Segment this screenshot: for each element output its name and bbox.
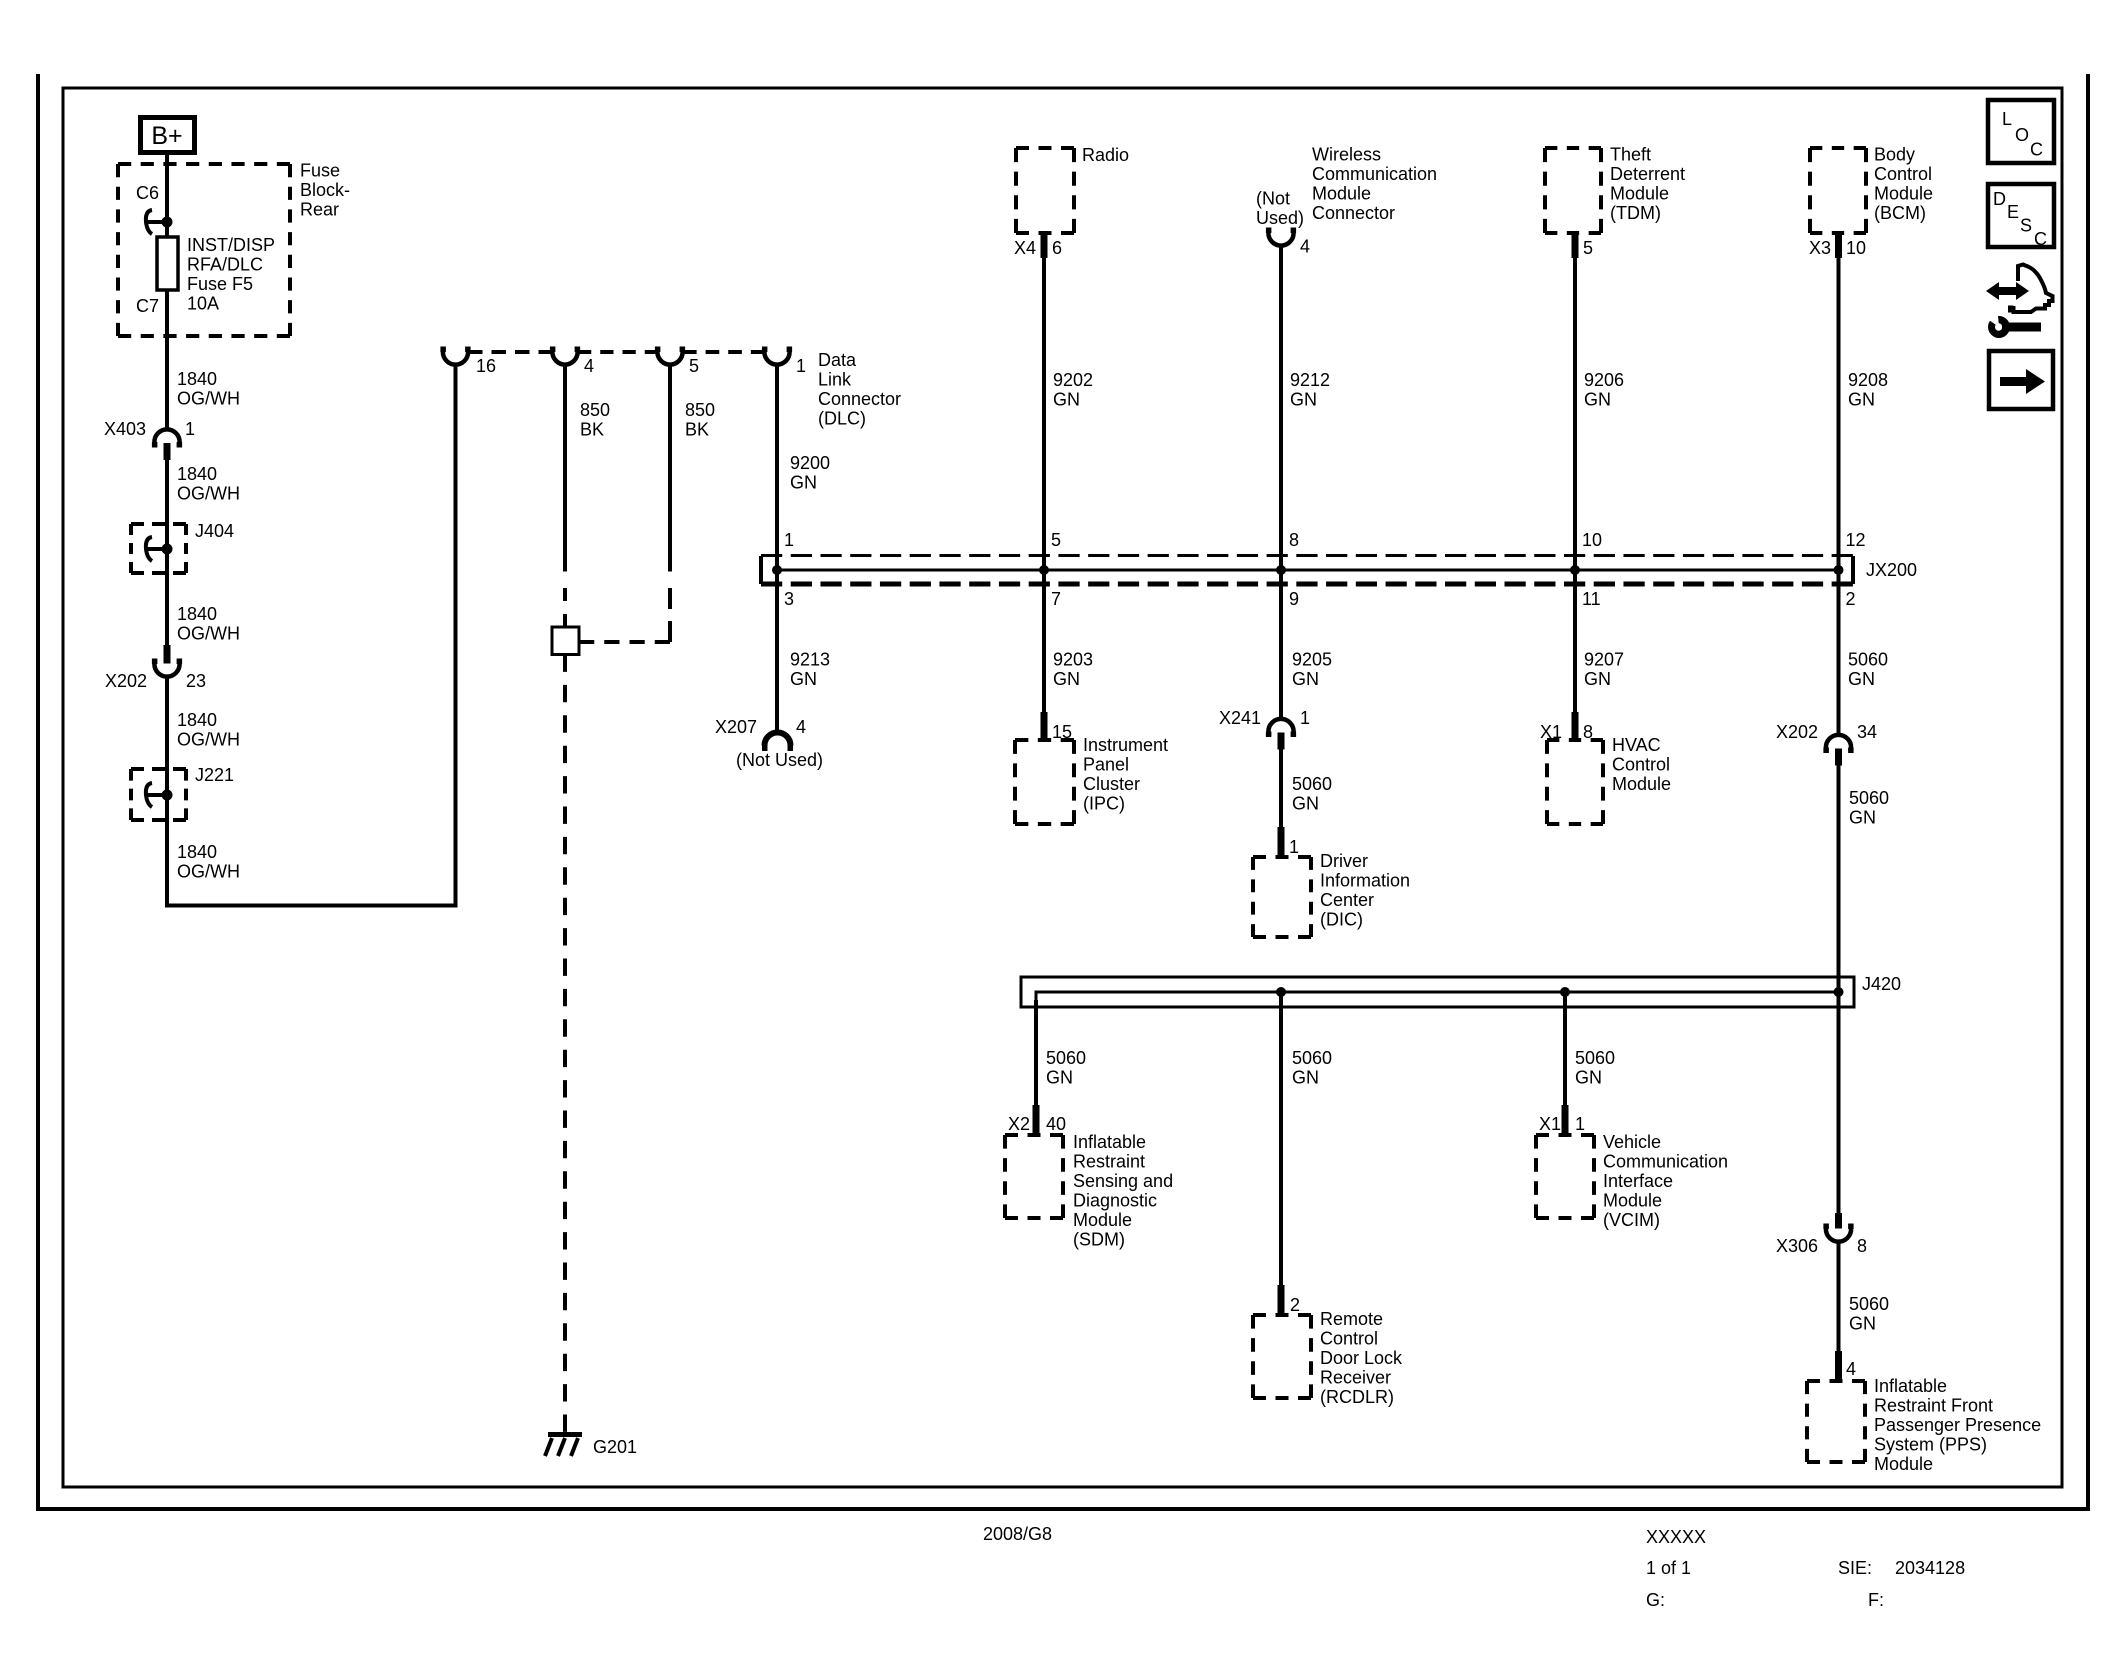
svg-text:1: 1 bbox=[784, 530, 794, 550]
svg-text:Instrument: Instrument bbox=[1083, 735, 1168, 755]
svg-text:X4: X4 bbox=[1014, 238, 1036, 258]
wire 9212 GN bbox=[1279, 245, 1283, 719]
svg-text:9207: 9207 bbox=[1584, 650, 1624, 670]
svg-text:Body: Body bbox=[1874, 145, 1915, 165]
svg-text:5060: 5060 bbox=[1849, 1294, 1889, 1314]
svg-text:850: 850 bbox=[580, 400, 610, 420]
svg-text:Module: Module bbox=[1610, 184, 1669, 204]
diagram inner frame bbox=[63, 88, 2062, 1487]
wire 5060 GN to J420 bbox=[1837, 765, 1841, 1214]
DLC dashed connector line bbox=[468, 350, 553, 354]
svg-text:2: 2 bbox=[1846, 589, 1856, 609]
junction on JX200 bbox=[1039, 565, 1049, 575]
svg-text:8: 8 bbox=[1857, 1236, 1867, 1256]
wire 9200 GN bbox=[775, 364, 779, 733]
module SDM dashed box bbox=[1005, 1133, 1063, 1137]
svg-text:JX200: JX200 bbox=[1866, 560, 1917, 580]
page outer border bottom bbox=[36, 1507, 2090, 1511]
wire 9206 GN bbox=[1573, 256, 1577, 714]
svg-text:OG/WH: OG/WH bbox=[177, 862, 240, 882]
svg-text:X306: X306 bbox=[1776, 1236, 1818, 1256]
wire bottom run to DLC pin 16 bbox=[167, 364, 456, 906]
svg-text:Restraint: Restraint bbox=[1073, 1152, 1145, 1172]
svg-text:2008/G8: 2008/G8 bbox=[983, 1524, 1052, 1544]
svg-text:5060: 5060 bbox=[1046, 1048, 1086, 1068]
icon box DESC bbox=[1988, 184, 2054, 249]
svg-text:1840: 1840 bbox=[177, 464, 217, 484]
svg-text:9205: 9205 bbox=[1292, 650, 1332, 670]
splice pack J420 bus line bbox=[1036, 992, 1839, 1105]
svg-text:(BCM): (BCM) bbox=[1874, 203, 1926, 223]
icon box LOC bbox=[1988, 100, 2054, 163]
svg-text:Block-: Block- bbox=[300, 180, 350, 200]
splice clip J221 bbox=[146, 783, 173, 807]
svg-text:G201: G201 bbox=[593, 1437, 637, 1457]
svg-text:L: L bbox=[2002, 109, 2012, 129]
pin stub SDM bbox=[1033, 1105, 1040, 1137]
svg-text:9212: 9212 bbox=[1290, 370, 1330, 390]
junction on JX200 bbox=[1570, 565, 1580, 575]
svg-text:1: 1 bbox=[796, 356, 806, 376]
svg-text:10: 10 bbox=[1582, 530, 1602, 550]
svg-text:Cluster: Cluster bbox=[1083, 774, 1140, 794]
svg-text:34: 34 bbox=[1857, 722, 1877, 742]
svg-text:GN: GN bbox=[1053, 669, 1080, 689]
svg-text:10A: 10A bbox=[187, 294, 219, 314]
svg-text:(TDM): (TDM) bbox=[1610, 203, 1661, 223]
svg-text:Module: Module bbox=[1073, 1210, 1132, 1230]
svg-text:Control: Control bbox=[1320, 1329, 1378, 1349]
svg-text:1: 1 bbox=[1289, 837, 1299, 857]
svg-text:S: S bbox=[2020, 216, 2032, 236]
connector X202 pin 34 bbox=[1823, 735, 1853, 766]
svg-text:(SDM): (SDM) bbox=[1073, 1230, 1125, 1250]
svg-text:(DLC): (DLC) bbox=[818, 409, 866, 429]
svg-text:9: 9 bbox=[1289, 589, 1299, 609]
svg-text:6: 6 bbox=[1052, 238, 1062, 258]
svg-text:Radio: Radio bbox=[1082, 145, 1129, 165]
svg-text:Fuse: Fuse bbox=[300, 161, 340, 181]
svg-text:11: 11 bbox=[1582, 589, 1601, 609]
svg-text:C7: C7 bbox=[136, 296, 159, 316]
svg-text:Center: Center bbox=[1320, 890, 1374, 910]
svg-text:5060: 5060 bbox=[1575, 1048, 1615, 1068]
svg-text:OG/WH: OG/WH bbox=[177, 484, 240, 504]
svg-text:O: O bbox=[2015, 125, 2029, 145]
svg-text:1840: 1840 bbox=[177, 604, 217, 624]
svg-text:Connector: Connector bbox=[818, 389, 901, 409]
svg-text:(RCDLR): (RCDLR) bbox=[1320, 1387, 1394, 1407]
page outer border right bbox=[2086, 74, 2090, 1511]
svg-text:GN: GN bbox=[1848, 669, 1875, 689]
svg-text:E: E bbox=[2007, 202, 2019, 222]
svg-text:Control: Control bbox=[1874, 164, 1932, 184]
module HVAC Control Module dashed box bbox=[1547, 738, 1603, 742]
icon double arrow bbox=[1986, 282, 2029, 300]
pin stub VCIM bbox=[1562, 1105, 1569, 1137]
svg-text:Information: Information bbox=[1320, 871, 1410, 891]
svg-text:OG/WH: OG/WH bbox=[177, 389, 240, 409]
connector X241 pin 1 bbox=[1266, 719, 1296, 750]
connector cavity Wireless pin 4 bbox=[1266, 228, 1296, 246]
icon vehicle outline bbox=[2008, 265, 2053, 313]
svg-text:2: 2 bbox=[1290, 1295, 1300, 1315]
svg-text:Control: Control bbox=[1612, 755, 1670, 775]
pin stub PPS bbox=[1835, 1351, 1842, 1383]
svg-text:X403: X403 bbox=[104, 419, 146, 439]
svg-text:40: 40 bbox=[1046, 1114, 1066, 1134]
svg-text:5060: 5060 bbox=[1849, 788, 1889, 808]
svg-text:Diagnostic: Diagnostic bbox=[1073, 1191, 1157, 1211]
svg-text:GN: GN bbox=[1290, 390, 1317, 410]
pin stub IPC bbox=[1041, 712, 1048, 742]
svg-text:Remote: Remote bbox=[1320, 1309, 1383, 1329]
svg-text:2034128: 2034128 bbox=[1895, 1558, 1965, 1578]
junction on J420 bbox=[1560, 987, 1570, 997]
svg-text:INST/DISP: INST/DISP bbox=[187, 235, 275, 255]
connector X207 pin 4 (not used) bbox=[762, 733, 793, 751]
svg-text:GN: GN bbox=[1849, 1314, 1876, 1334]
svg-text:Theft: Theft bbox=[1610, 145, 1651, 165]
svg-text:(Not: (Not bbox=[1256, 189, 1290, 209]
svg-text:(Not Used): (Not Used) bbox=[736, 750, 823, 770]
connector X306 pin 8 bbox=[1823, 1213, 1853, 1242]
svg-text:GN: GN bbox=[1584, 669, 1611, 689]
splice pack JX200 bus line bbox=[777, 569, 1839, 572]
svg-text:Interface: Interface bbox=[1603, 1171, 1673, 1191]
page outer border left bbox=[36, 74, 40, 1511]
svg-text:16: 16 bbox=[476, 356, 496, 376]
junction on JX200 bbox=[772, 565, 782, 575]
svg-text:Sensing and: Sensing and bbox=[1073, 1171, 1173, 1191]
svg-text:Panel: Panel bbox=[1083, 755, 1129, 775]
icon box next arrow bbox=[1989, 351, 2053, 409]
svg-text:1 of 1: 1 of 1 bbox=[1646, 1558, 1691, 1578]
wire 5060 GN to RCDLR bbox=[1279, 994, 1283, 1317]
svg-text:8: 8 bbox=[1289, 530, 1299, 550]
svg-text:9203: 9203 bbox=[1053, 650, 1093, 670]
module PPS dashed box bbox=[1807, 1379, 1865, 1383]
svg-text:Communication: Communication bbox=[1603, 1152, 1728, 1172]
svg-text:Receiver: Receiver bbox=[1320, 1368, 1391, 1388]
module Radio dashed box bbox=[1016, 146, 1074, 150]
svg-text:4: 4 bbox=[584, 356, 594, 376]
svg-text:Module: Module bbox=[1874, 184, 1933, 204]
DLC connector cavity 4 bbox=[550, 347, 580, 365]
svg-text:GN: GN bbox=[1046, 1068, 1073, 1088]
svg-text:GN: GN bbox=[1575, 1068, 1602, 1088]
svg-text:(VCIM): (VCIM) bbox=[1603, 1210, 1660, 1230]
svg-text:J420: J420 bbox=[1862, 974, 1901, 994]
connector X202 pin 23 bbox=[152, 645, 182, 677]
svg-text:GN: GN bbox=[790, 669, 817, 689]
hidden wire dashed to splice node bbox=[563, 588, 567, 627]
svg-text:5: 5 bbox=[1051, 530, 1061, 550]
svg-text:B+: B+ bbox=[151, 122, 182, 150]
svg-text:X3: X3 bbox=[1809, 238, 1831, 258]
svg-text:X1: X1 bbox=[1539, 1114, 1561, 1134]
svg-text:Data: Data bbox=[818, 350, 857, 370]
svg-text:7: 7 bbox=[1051, 589, 1061, 609]
svg-text:OG/WH: OG/WH bbox=[177, 730, 240, 750]
DLC connector cavity 16 bbox=[440, 347, 470, 365]
svg-text:1: 1 bbox=[1575, 1114, 1585, 1134]
splice pack JX200 dashed box bbox=[761, 556, 1853, 585]
pin stub HVAC bbox=[1572, 712, 1579, 742]
svg-text:OG/WH: OG/WH bbox=[177, 624, 240, 644]
wire 5060 GN to DIC bbox=[1279, 749, 1283, 859]
svg-text:5060: 5060 bbox=[1292, 1048, 1332, 1068]
footer label SIE number bbox=[1838, 1558, 1965, 1578]
svg-text:Inflatable: Inflatable bbox=[1073, 1132, 1146, 1152]
svg-text:Deterrent: Deterrent bbox=[1610, 164, 1685, 184]
svg-text:Restraint Front: Restraint Front bbox=[1874, 1396, 1993, 1416]
wire X202 to J221 bbox=[165, 676, 169, 908]
pin stub BCM bbox=[1835, 231, 1842, 258]
svg-text:GN: GN bbox=[1292, 1068, 1319, 1088]
junction on J420 bbox=[1276, 987, 1286, 997]
svg-text:GN: GN bbox=[1292, 669, 1319, 689]
junction on J420 bbox=[1834, 987, 1844, 997]
module VCIM dashed box bbox=[1536, 1133, 1594, 1137]
svg-text:Connector: Connector bbox=[1312, 203, 1395, 223]
svg-text:C: C bbox=[2030, 140, 2043, 160]
wire 9208 GN bbox=[1837, 256, 1841, 735]
svg-text:Wireless: Wireless bbox=[1312, 145, 1381, 165]
splice node square bbox=[552, 627, 579, 655]
splice clip J404 bbox=[146, 537, 173, 561]
wire 5060 GN to SDM bbox=[1034, 1000, 1038, 1137]
svg-text:1840: 1840 bbox=[177, 369, 217, 389]
DLC connector cavity 5 bbox=[655, 347, 685, 365]
svg-text:4: 4 bbox=[796, 717, 806, 737]
pin stub TDM bbox=[1572, 231, 1579, 258]
fuse F5 body bbox=[157, 237, 178, 290]
pin stub DIC bbox=[1278, 827, 1285, 859]
svg-text:9213: 9213 bbox=[790, 650, 830, 670]
connector X403 pin 1 bbox=[152, 429, 182, 460]
svg-text:Communication: Communication bbox=[1312, 164, 1437, 184]
svg-text:Passenger Presence: Passenger Presence bbox=[1874, 1415, 2041, 1435]
svg-text:Driver: Driver bbox=[1320, 851, 1368, 871]
svg-text:GN: GN bbox=[1292, 794, 1319, 814]
DLC connector cavity 1 bbox=[762, 347, 792, 365]
svg-text:XXXXX: XXXXX bbox=[1646, 1527, 1706, 1547]
icon wrench bbox=[1988, 316, 2041, 338]
svg-text:3: 3 bbox=[784, 589, 794, 609]
svg-text:GN: GN bbox=[1584, 390, 1611, 410]
svg-text:C: C bbox=[2034, 229, 2047, 249]
wire 9202 GN bbox=[1042, 256, 1046, 714]
svg-text:Module: Module bbox=[1312, 184, 1371, 204]
junction on JX200 bbox=[1834, 565, 1844, 575]
module IPC dashed box bbox=[1015, 738, 1074, 742]
wire 850 BK from DLC pin 4 bbox=[563, 364, 567, 572]
wire 5060 GN to VCIM bbox=[1563, 994, 1567, 1137]
svg-text:(IPC): (IPC) bbox=[1083, 794, 1125, 814]
svg-text:5060: 5060 bbox=[1292, 774, 1332, 794]
junction on JX200 bbox=[1276, 565, 1286, 575]
svg-text:5060: 5060 bbox=[1848, 650, 1888, 670]
module DIC dashed box bbox=[1253, 855, 1311, 859]
power symbol B+ bbox=[141, 118, 195, 153]
svg-text:4: 4 bbox=[1300, 237, 1310, 257]
svg-text:Module: Module bbox=[1874, 1454, 1933, 1474]
hidden wire dashed to ground bbox=[563, 655, 567, 1433]
module TDM dashed box bbox=[1545, 146, 1601, 150]
wire 5060 GN to PPS bbox=[1837, 1241, 1841, 1383]
svg-text:X202: X202 bbox=[1776, 722, 1818, 742]
svg-text:System (PPS): System (PPS) bbox=[1874, 1435, 1987, 1455]
svg-text:RFA/DLC: RFA/DLC bbox=[187, 255, 263, 275]
svg-text:GN: GN bbox=[1053, 390, 1080, 410]
svg-text:9208: 9208 bbox=[1848, 370, 1888, 390]
svg-text:5: 5 bbox=[1583, 238, 1593, 258]
svg-text:1: 1 bbox=[1300, 708, 1310, 728]
svg-text:Rear: Rear bbox=[300, 200, 339, 220]
svg-text:BK: BK bbox=[685, 420, 709, 440]
fuse block dashed box Fuse Block-Rear bbox=[118, 162, 290, 166]
svg-text:1840: 1840 bbox=[177, 710, 217, 730]
splice pack J420 box bbox=[1021, 977, 1854, 1007]
svg-text:BK: BK bbox=[580, 420, 604, 440]
hidden wire dashed from pin 5 bbox=[668, 588, 672, 642]
svg-text:5: 5 bbox=[689, 356, 699, 376]
svg-text:12: 12 bbox=[1846, 530, 1866, 550]
svg-text:Inflatable: Inflatable bbox=[1874, 1376, 1947, 1396]
wire B+ to fuse block bbox=[165, 155, 169, 430]
pin stub RCDLR bbox=[1278, 1285, 1285, 1317]
svg-text:SIE:: SIE: bbox=[1838, 1558, 1872, 1578]
splice J221 dashed box bbox=[131, 767, 186, 771]
svg-text:J404: J404 bbox=[195, 521, 234, 541]
splice J404 dashed box bbox=[131, 522, 186, 526]
svg-text:4: 4 bbox=[1846, 1359, 1856, 1379]
pin stub Radio bbox=[1041, 231, 1048, 258]
svg-text:C6: C6 bbox=[136, 183, 159, 203]
svg-text:Used): Used) bbox=[1256, 208, 1304, 228]
svg-text:F:: F: bbox=[1868, 1590, 1884, 1610]
svg-text:X241: X241 bbox=[1219, 708, 1261, 728]
module BCM dashed box bbox=[1810, 146, 1866, 150]
svg-text:9200: 9200 bbox=[790, 453, 830, 473]
hidden wire dashed horizontal to splice node bbox=[579, 640, 670, 644]
svg-text:10: 10 bbox=[1846, 238, 1866, 258]
wire 850 BK from DLC pin 5 bbox=[668, 364, 672, 572]
svg-text:1: 1 bbox=[185, 419, 195, 439]
DLC dashed connector line bbox=[683, 350, 765, 354]
svg-text:GN: GN bbox=[1848, 390, 1875, 410]
svg-text:Module: Module bbox=[1612, 774, 1671, 794]
module RCDLR dashed box bbox=[1253, 1313, 1311, 1317]
svg-text:X202: X202 bbox=[105, 671, 147, 691]
ground symbol G201 bbox=[545, 1432, 582, 1456]
svg-text:Vehicle: Vehicle bbox=[1603, 1132, 1661, 1152]
svg-text:1840: 1840 bbox=[177, 842, 217, 862]
svg-text:9206: 9206 bbox=[1584, 370, 1624, 390]
DLC dashed connector line bbox=[578, 350, 658, 354]
svg-text:Door Lock: Door Lock bbox=[1320, 1348, 1403, 1368]
svg-text:GN: GN bbox=[1849, 808, 1876, 828]
svg-text:X207: X207 bbox=[715, 717, 757, 737]
svg-text:9202: 9202 bbox=[1053, 370, 1093, 390]
svg-text:HVAC: HVAC bbox=[1612, 735, 1661, 755]
svg-text:23: 23 bbox=[186, 671, 206, 691]
svg-text:850: 850 bbox=[685, 400, 715, 420]
svg-text:(DIC): (DIC) bbox=[1320, 910, 1363, 930]
svg-text:Link: Link bbox=[818, 370, 852, 390]
svg-text:X2: X2 bbox=[1008, 1114, 1030, 1134]
svg-text:J221: J221 bbox=[195, 765, 234, 785]
svg-text:G:: G: bbox=[1646, 1590, 1665, 1610]
wire X403 to J404 bbox=[165, 460, 169, 645]
splice clip C6 bbox=[146, 210, 173, 234]
svg-text:Module: Module bbox=[1603, 1191, 1662, 1211]
svg-text:Fuse F5: Fuse F5 bbox=[187, 274, 253, 294]
svg-text:D: D bbox=[1993, 189, 2006, 209]
svg-text:GN: GN bbox=[790, 473, 817, 493]
